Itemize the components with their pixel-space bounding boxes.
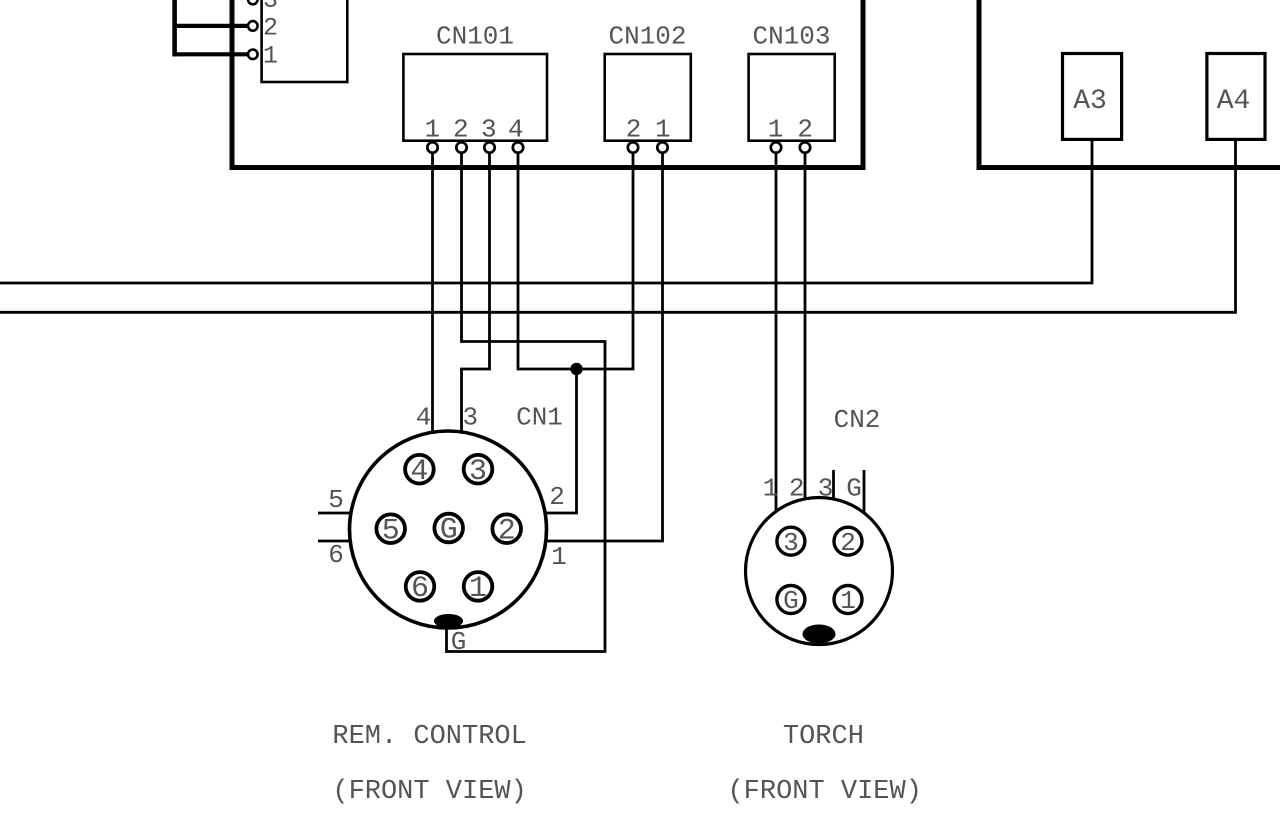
svg-text:G: G [846, 473, 862, 503]
pin 1 circle of CN2 [834, 586, 862, 614]
pin 2 circle of CN103 [800, 142, 810, 152]
stub wire CN2 position 3 [832, 470, 835, 499]
svg-text:1: 1 [424, 115, 440, 145]
pin 1 circle of CN1 [464, 572, 493, 601]
svg-text:1: 1 [263, 42, 278, 71]
svg-text:6: 6 [411, 572, 429, 606]
svg-text:3: 3 [783, 528, 799, 558]
pin 6 circle of CN1 [406, 572, 435, 601]
svg-text:3: 3 [469, 455, 487, 489]
svg-text:G: G [783, 586, 799, 616]
svg-text:CN102: CN102 [608, 22, 686, 52]
svg-text:A3: A3 [1073, 86, 1107, 117]
stub wire CN1 position 6 [318, 540, 352, 543]
svg-text:1: 1 [763, 473, 779, 503]
svg-text:CN101: CN101 [436, 22, 514, 52]
svg-text:CN1: CN1 [516, 403, 563, 433]
svg-text:4: 4 [508, 115, 524, 145]
wire CN101 pin2 to CN1 ground key [447, 153, 606, 652]
pin 1 circle of J1 [248, 50, 258, 60]
pin 1 circle of CN103 [771, 142, 781, 152]
svg-text:4: 4 [416, 403, 432, 433]
svg-text:3: 3 [818, 473, 834, 503]
svg-text:G: G [451, 627, 467, 657]
svg-text:2: 2 [789, 473, 805, 503]
connector CN2 body circle (TORCH) [746, 498, 893, 645]
pin 2 circle of J1 [248, 21, 258, 31]
pin G circle of CN2 [777, 586, 805, 614]
svg-text:G: G [440, 514, 458, 548]
wire CN101 pin1 to CN1 pin4 [431, 153, 434, 432]
pin 2 circle of CN1 [492, 514, 521, 543]
svg-text:1: 1 [655, 115, 671, 145]
component A3 [1063, 54, 1122, 140]
ground keyway of CN2 (filled notch) [803, 625, 836, 644]
svg-text:5: 5 [382, 514, 400, 548]
svg-text:5: 5 [328, 485, 344, 515]
svg-text:2: 2 [797, 115, 813, 145]
svg-text:CN103: CN103 [752, 22, 830, 52]
pin 1 circle of CN102 [657, 142, 667, 152]
pin 1 circle of CN101 [427, 142, 437, 152]
svg-text:4: 4 [410, 455, 428, 489]
svg-text:6: 6 [328, 540, 344, 570]
pin G circle of CN1 [434, 514, 463, 543]
wire CN101 pin4 to CN102 pin2 [518, 153, 633, 369]
stub wire CN1 position 5 [318, 512, 352, 515]
pin 2 circle of CN101 [456, 142, 466, 152]
wire CN103 pin1 to CN2 pin area [775, 153, 778, 512]
wire A3 to left edge [0, 139, 1092, 283]
svg-text:(FRONT VIEW): (FRONT VIEW) [727, 777, 921, 807]
connector CN102 [605, 54, 691, 141]
svg-text:2: 2 [626, 115, 642, 145]
svg-text:TORCH: TORCH [783, 722, 864, 752]
power unit enclosure (left bold box outline) [232, 0, 863, 168]
pin 4 circle of CN101 [513, 142, 523, 152]
svg-text:1: 1 [768, 115, 784, 145]
svg-text:2: 2 [498, 514, 516, 548]
pin 4 circle of CN1 [405, 455, 434, 484]
svg-text:1: 1 [469, 572, 487, 606]
connector CN101 [403, 54, 547, 141]
svg-text:3: 3 [462, 403, 478, 433]
pin 3 circle of CN101 [484, 142, 494, 152]
svg-text:3: 3 [481, 115, 497, 145]
right unit enclosure (bold box outline) [979, 0, 1280, 168]
svg-text:2: 2 [840, 528, 856, 558]
svg-text:2: 2 [263, 14, 278, 43]
svg-text:REM. CONTROL: REM. CONTROL [332, 722, 526, 752]
connector J1 (top-left box, cut off at top) [262, 0, 348, 82]
svg-text:1: 1 [551, 542, 567, 572]
component A4 [1207, 54, 1265, 140]
pin 3 circle of CN2 [777, 527, 805, 555]
svg-text:CN2: CN2 [834, 405, 881, 435]
wire CN103 pin2 to CN2 pin area [804, 153, 807, 499]
wire A4 to left edge [0, 139, 1236, 312]
pin 3 circle of J1 [248, 0, 258, 4]
svg-text:1: 1 [840, 586, 856, 616]
pin 2 circle of CN102 [628, 142, 638, 152]
wire CN102 pin1 to CN1 pin1 [546, 153, 663, 541]
svg-text:2: 2 [453, 115, 469, 145]
ground keyway of CN1 (filled notch) [434, 614, 463, 628]
pin 3 circle of CN1 [464, 455, 493, 484]
wire CN101 pin3 to CN1 pin3 [462, 153, 490, 432]
pin 2 circle of CN2 [834, 527, 862, 555]
connector CN1 body circle (REM. CONTROL) [350, 431, 547, 628]
pin 5 circle of CN1 [376, 514, 405, 543]
wire junction to CN1 pin2 [545, 369, 576, 513]
wire to pin 1 of top-left connector [173, 52, 247, 56]
svg-text:A4: A4 [1217, 86, 1251, 117]
connector CN103 [749, 54, 835, 141]
svg-text:(FRONT VIEW): (FRONT VIEW) [332, 777, 526, 807]
wire bus left bold vertical [172, 0, 177, 56]
svg-text:2: 2 [549, 482, 565, 512]
wire to pin 2 of top-left connector [173, 24, 247, 28]
junction dot node [570, 363, 582, 375]
stub wire CN2 position G [863, 470, 866, 513]
